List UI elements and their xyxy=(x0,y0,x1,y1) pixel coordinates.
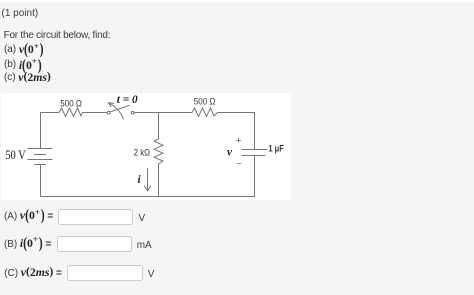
answer row C input xyxy=(67,265,142,281)
wire: top-left corner from left rail to resistor R1 xyxy=(41,113,60,149)
prompt line xyxy=(4,30,111,41)
item (b) xyxy=(4,58,42,73)
capacitor C1 bottom plate xyxy=(242,155,266,157)
wire: middle branch from top junction down to R3 xyxy=(158,113,160,140)
switch S1 motion arc xyxy=(109,103,124,119)
svg-text:500 Ω: 500 Ω xyxy=(60,98,82,108)
wire: R3 to bottom rail xyxy=(158,164,160,197)
switch S1 arrowhead xyxy=(109,103,115,107)
switch S1 blade xyxy=(110,105,130,112)
answer row C unit xyxy=(148,269,155,280)
battery V1 plate short mid xyxy=(34,154,46,156)
capacitor C1 top plate xyxy=(242,149,268,151)
battery V1 plate long top xyxy=(28,148,53,150)
svg-text:−: − xyxy=(236,159,242,170)
switch S1 left terminal xyxy=(107,111,110,114)
current arrow i shaft xyxy=(147,168,149,190)
circuit schematic image block xyxy=(1,93,291,200)
svg-text:500 Ω: 500 Ω xyxy=(194,97,216,107)
svg-text:2 kΩ: 2 kΩ xyxy=(134,148,151,158)
svg-text:i: i xyxy=(138,174,142,186)
wire: switch right terminal to junction and R2 xyxy=(134,112,192,114)
resistor R2 500 ohm (top-right) xyxy=(192,108,218,117)
answer row B input xyxy=(57,236,132,252)
answer row C label xyxy=(4,265,62,280)
svg-text:t = 0: t = 0 xyxy=(117,94,138,106)
svg-text:+: + xyxy=(236,136,242,147)
switch S1 right terminal xyxy=(131,111,134,114)
answer row A unit xyxy=(139,213,146,224)
answer row A label xyxy=(4,208,53,223)
answer row A input xyxy=(58,209,133,225)
(1 point) xyxy=(2,8,39,19)
svg-text:1 μF: 1 μF xyxy=(268,144,284,154)
svg-text:50 V: 50 V xyxy=(5,148,26,162)
wire: capacitor to bottom-right corner and bottom rail xyxy=(41,156,255,197)
top light strip xyxy=(0,0,474,3)
item (c) xyxy=(4,70,51,85)
wire: R1 to switch left terminal xyxy=(83,112,108,114)
wire: R2 to top-right corner down to capacitor xyxy=(218,113,255,150)
answer row B unit xyxy=(137,240,152,251)
battery V1 plate long xyxy=(28,159,53,161)
resistor R3 2k ohm (middle vertical) xyxy=(154,139,163,164)
item (a) xyxy=(4,42,44,57)
answer row B label xyxy=(4,236,51,251)
current arrow i head xyxy=(144,186,151,191)
resistor R1 500 ohm (top-left) xyxy=(59,108,83,117)
battery V1 plate short bottom xyxy=(34,164,46,166)
wire: bottom-left rail up to battery xyxy=(40,165,42,197)
svg-text:v: v xyxy=(227,147,233,159)
